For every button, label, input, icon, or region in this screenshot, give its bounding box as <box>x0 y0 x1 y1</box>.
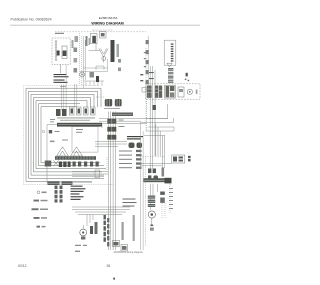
svg-text:02/12: 02/12 <box>18 264 27 268</box>
dotted riser right of center <box>145 48 147 131</box>
harness note (dark text block) <box>127 136 143 140</box>
defrost sensor dot <box>42 130 44 132</box>
motor lead down <box>151 218 153 224</box>
ticks on right wires <box>140 74 146 92</box>
dots near stud terminal <box>185 79 189 82</box>
junction bundle turning down <box>156 124 165 168</box>
stray scan dot <box>113 278 115 280</box>
tiny label above junction <box>153 105 156 110</box>
legend symbol rows <box>32 191 49 228</box>
fresh food compartment box <box>47 125 102 183</box>
defrost heater labels rows (right of center) <box>119 150 142 169</box>
rotated label right of bundle <box>133 215 135 241</box>
hatch texture on heater blocks <box>147 89 169 93</box>
header rule <box>10 24 200 26</box>
dark terminal blob <box>165 178 172 184</box>
connector J1 J2 (left blocks) <box>56 109 67 116</box>
vertical label near bottom boxes <box>122 222 124 240</box>
wire label rows with arrows <box>123 199 137 207</box>
compressor motor M1 <box>80 229 87 236</box>
rotated harness labels (bottom center) <box>104 215 110 246</box>
ice mold thermostat <box>178 87 184 97</box>
tick labels on dotted riser <box>144 52 146 67</box>
control board header band <box>57 123 102 127</box>
dotted drop right of strip <box>106 157 108 171</box>
thermostat S1 (top-center box) <box>91 34 98 44</box>
dotted wire along left of junction <box>146 99 148 131</box>
tick marks on left wires <box>149 72 154 79</box>
label right of water valve <box>90 72 95 78</box>
tiny connector labels <box>57 108 120 121</box>
interior tiny labels <box>50 119 125 141</box>
tiny labels above power box <box>55 33 64 34</box>
heater element bars (bottom of loop) <box>55 186 63 203</box>
stud terminal dot <box>186 73 188 77</box>
label "1" inside box <box>50 141 55 143</box>
terminal tick right of motor <box>196 90 198 95</box>
condenser fan motor M4 <box>148 211 155 218</box>
dispenser vertical label (dark) <box>111 40 115 62</box>
dispenser dashed enclosure top edge <box>55 31 146 33</box>
compressor labels rows <box>71 186 86 200</box>
wire bundle: outer dotted loop <box>24 85 115 184</box>
connector boxes row P2-P5 <box>70 107 96 115</box>
sensor wire pair with ticks <box>83 36 85 88</box>
dark note left-center <box>96 76 99 82</box>
right junction wires <box>141 104 174 136</box>
label left of thermostat <box>86 36 91 46</box>
defrost heater terminal rows <box>148 169 158 181</box>
run capacitor blocks <box>148 196 155 208</box>
box bottom hatched band <box>48 181 73 185</box>
thermal fuse <box>188 156 191 162</box>
center wire pair bundle <box>108 112 115 251</box>
auger motor pin strip <box>171 44 174 62</box>
wires left of auger chain <box>150 66 155 169</box>
auger funnel triangle <box>167 63 172 67</box>
svg-text:E23BC68JS3: E23BC68JS3 <box>99 16 118 20</box>
sensor line with labels (right) <box>147 36 149 99</box>
wires sloping to compressor <box>72 207 130 226</box>
dashed rail to defrost <box>140 156 165 158</box>
small box left of rows <box>95 170 100 178</box>
fan motor circle under funnel <box>102 57 106 61</box>
tiny marks near bundle top <box>60 85 66 88</box>
tick labels on sensor pair <box>74 48 78 73</box>
dotted drops from chain <box>162 184 170 218</box>
connector CN1 CN2 (hatched ovals) <box>105 99 122 106</box>
tiny text near bundle bottom <box>75 245 87 246</box>
drier X mark <box>45 161 59 167</box>
right bundle near bottom <box>141 122 146 250</box>
heater connector band <box>144 178 168 182</box>
svg-text:WIRING DIAGRAM: WIRING DIAGRAM <box>91 22 123 26</box>
wire along box bottom <box>73 182 92 184</box>
bottom connector boxes <box>113 241 120 247</box>
wire bundle: nested cabinet loop <box>26 88 106 181</box>
funnel bracket box <box>96 66 104 70</box>
power supply dashed box (top-left) <box>52 38 70 65</box>
dashed stub <box>96 96 104 98</box>
defrost thermostat box <box>172 155 185 163</box>
wires y163-166 <box>140 163 172 166</box>
wires power box to board connectors <box>62 65 67 111</box>
mullion terminal strip (comb) <box>55 156 96 160</box>
evaporator fan connectors <box>129 143 143 149</box>
tiny pads below label <box>118 59 121 71</box>
line voltage label rows <box>54 74 69 83</box>
wire from thermostat down <box>95 43 97 51</box>
branch wires into loop corner <box>75 84 77 107</box>
tiny mark left of part number <box>75 251 80 252</box>
auger motor housing (tall box top-right) <box>164 40 176 65</box>
wire: loop right corners turning down <box>83 88 101 107</box>
connector pin column in power box <box>55 41 57 61</box>
vertical label right of heater rows <box>162 168 165 177</box>
right small chain boxes <box>160 192 165 203</box>
relay K1 in power box <box>62 46 67 59</box>
svg-text:26: 26 <box>107 264 111 268</box>
tick rows on dotted drops <box>169 188 173 209</box>
wire rows under comb <box>72 172 108 177</box>
connector chain below auger motor <box>168 68 173 83</box>
wire junction bracket <box>89 50 101 52</box>
switch S2 above funnel <box>100 32 107 39</box>
door switch tents <box>57 147 83 156</box>
fuse block in power box <box>57 51 60 56</box>
cross wires center <box>95 119 168 147</box>
water valve symbol <box>80 72 85 77</box>
inline connector pairs on center bundle <box>107 119 116 140</box>
wire funnel merge <box>99 49 108 63</box>
label beside power box <box>72 40 74 48</box>
condenser fan wires down-right <box>151 184 158 210</box>
lamp mark inside box <box>49 130 52 133</box>
freezer compartment dashed box (right) <box>146 84 201 99</box>
dotted branch line pair <box>80 33 82 85</box>
svg-text:Publication No. 09083624: Publication No. 09083624 <box>11 17 52 21</box>
small label right of dispenser label <box>117 44 120 57</box>
ice maker module block <box>165 85 175 98</box>
svg-text:242086103 wiring diagram: 242086103 wiring diagram <box>114 251 143 254</box>
wire from power box down <box>60 65 62 74</box>
board edge label strip <box>112 113 133 117</box>
terminal comb row (in box) <box>59 162 99 168</box>
ice maker heater block <box>147 86 162 98</box>
sensor return wires <box>80 59 108 72</box>
overload protector <box>90 222 98 234</box>
motor M3 (ice maker) <box>187 89 192 94</box>
control board box <box>72 127 98 153</box>
comb drops under dashed rail <box>84 81 104 86</box>
